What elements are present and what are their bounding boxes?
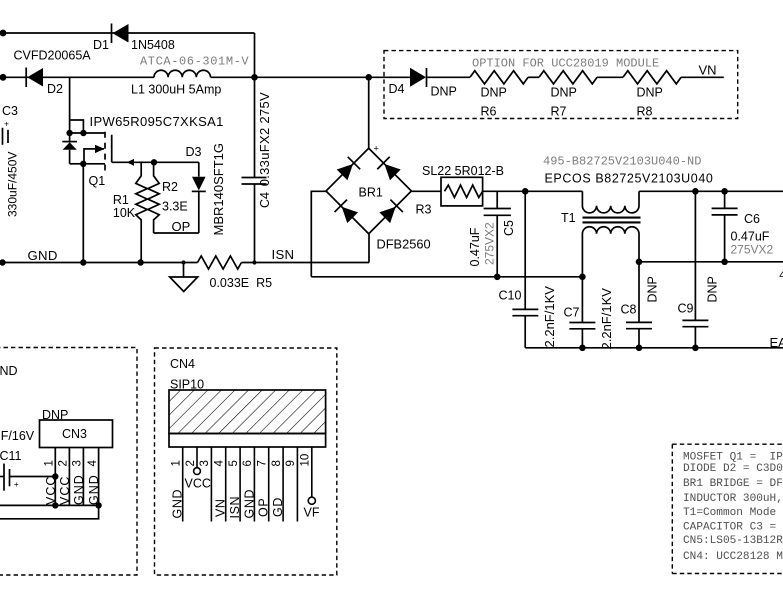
node junction BR1 top feed	[365, 74, 372, 81]
wire CN3 VCC rail	[0, 504, 99, 506]
svg-text:D4: D4	[389, 82, 405, 96]
wire main rail y=77 left segment	[2, 76, 154, 78]
wire EARTH rail	[525, 347, 783, 349]
svg-text:CN4: CN4	[170, 357, 195, 371]
resistor R2	[148, 162, 159, 233]
svg-text:VN: VN	[699, 63, 717, 78]
svg-text:7: 7	[257, 460, 269, 466]
svg-text:Q1: Q1	[89, 174, 106, 188]
dashed box CN4	[155, 348, 337, 575]
svg-text:+: +	[14, 479, 19, 489]
svg-text:C4: C4	[258, 192, 272, 208]
svg-text:L1 300uH 5Amp: L1 300uH 5Amp	[131, 83, 221, 97]
svg-text:C3: C3	[2, 104, 18, 118]
resistor R7	[539, 71, 597, 84]
wire line A from R3 to T1	[483, 190, 583, 192]
svg-text:R7: R7	[551, 105, 567, 119]
diode D2	[26, 68, 43, 88]
svg-text:VCC: VCC	[44, 476, 58, 505]
diode D4	[410, 68, 427, 87]
svg-text:8: 8	[271, 460, 283, 466]
node EARTH / C8	[636, 345, 643, 352]
node GND R1	[137, 259, 143, 265]
diode BR1 top-left	[336, 157, 360, 181]
wire gate net to D3	[112, 161, 199, 163]
pin 2 CN4	[196, 447, 198, 468]
capacitor C7	[569, 277, 595, 348]
capacitor C8	[626, 262, 652, 348]
svg-text:5: 5	[228, 460, 240, 466]
svg-text:10K: 10K	[113, 206, 136, 220]
svg-text:SIP10: SIP10	[170, 378, 204, 392]
svg-text:DFB2560: DFB2560	[377, 237, 431, 252]
wire Q1 drain drop from main rail	[69, 77, 71, 133]
diode BR1 bottom-right	[379, 200, 403, 224]
svg-text:GND: GND	[72, 474, 86, 505]
diode BR1 bottom-left	[335, 200, 359, 224]
svg-text:OP: OP	[172, 219, 191, 234]
node C4 bottom	[252, 260, 256, 264]
svg-text:+: +	[374, 144, 379, 154]
svg-text:330uF/450V: 330uF/450V	[6, 152, 20, 217]
node line A / C10 junction	[522, 188, 529, 195]
svg-text:DNP: DNP	[706, 276, 720, 302]
transformer T1 bottom winding	[582, 227, 639, 277]
svg-text:C8: C8	[621, 303, 637, 317]
arrow on gate wire	[127, 159, 135, 166]
svg-text:OP: OP	[257, 498, 271, 517]
capacitor C11	[0, 464, 55, 491]
svg-text:D1: D1	[93, 38, 109, 52]
bridge BR1 diamond	[326, 148, 411, 234]
wire BR1 right vertex to R3	[411, 190, 441, 192]
node line B / C6 bottom	[721, 259, 728, 266]
wire OP net	[154, 232, 199, 234]
svg-text:0.33uFX2 275V: 0.33uFX2 275V	[257, 92, 272, 186]
svg-text:GND: GND	[242, 489, 256, 519]
wire ISN net	[242, 262, 370, 264]
transistor Q1 channel and leads	[83, 132, 111, 171]
svg-text:DNP: DNP	[637, 86, 663, 100]
svg-text:275VX2: 275VX2	[731, 243, 774, 257]
resistor R3 box	[441, 177, 483, 206]
svg-text:T1: T1	[561, 211, 576, 225]
pin 9 CN4	[296, 447, 298, 522]
svg-text:DNP: DNP	[481, 86, 507, 100]
svg-text:R2: R2	[162, 180, 178, 194]
resistor R6	[470, 71, 528, 84]
node T1 bottom-right / C8	[636, 259, 643, 266]
wire drain jog loop	[70, 120, 84, 133]
svg-text:OPTION FOR UCC28019 MODULE: OPTION FOR UCC28019 MODULE	[472, 57, 659, 71]
wire AC rail B left y=276.8	[311, 276, 582, 278]
wire ISN to BR1 minus	[368, 234, 370, 263]
svg-text:MOSFET Q1 = IPW65R095C7XKSA1: MOSFET Q1 = IPW65R095C7XKSA1	[683, 452, 783, 464]
node EARTH / C7	[579, 345, 586, 352]
wire CN3 GND rail	[0, 505, 99, 518]
wire R6 to R7	[528, 76, 539, 78]
svg-text:INDUCTOR 300uH, 5Amp: INDUCTOR 300uH, 5Amp	[683, 493, 783, 505]
node C11 / pin1	[52, 473, 58, 479]
svg-text:C11: C11	[0, 449, 22, 463]
svg-text:CN3: CN3	[62, 427, 87, 441]
wire BR1 top stub	[368, 77, 370, 148]
node T1 bottom-left / C7	[579, 274, 586, 281]
svg-text:C10: C10	[499, 289, 522, 303]
svg-text:SL22 5R012-B: SL22 5R012-B	[422, 164, 504, 178]
svg-text:0.47uF: 0.47uF	[468, 227, 482, 266]
svg-text:2: 2	[58, 460, 70, 466]
svg-text:DIODE D2 = C3D08060A: DIODE D2 = C3D08060A	[683, 463, 783, 475]
svg-text:0.47uF: 0.47uF	[731, 230, 770, 244]
svg-text:C5: C5	[502, 220, 516, 236]
svg-text:495-B82725V2103U040-ND: 495-B82725V2103U040-ND	[543, 155, 701, 169]
node line A / C9	[692, 188, 699, 195]
node gate/R2 junction	[151, 159, 157, 165]
svg-text:EARTH: EARTH	[770, 335, 783, 350]
connector CN4 hatched body	[169, 390, 326, 447]
svg-text:2.2nF/1KV: 2.2nF/1KV	[599, 288, 614, 350]
svg-text:EPCOS B82725V2103U040: EPCOS B82725V2103U040	[545, 172, 714, 186]
svg-text:ISN: ISN	[272, 247, 295, 262]
capacitor C9	[682, 191, 708, 347]
svg-text:275VX2: 275VX2	[483, 222, 497, 265]
svg-text:CN5:LS05-13B12RS: CN5:LS05-13B12RS	[683, 535, 783, 547]
node left end main rail	[0, 74, 6, 81]
capacitor C3	[3, 128, 9, 145]
pin 3 CN3	[82, 448, 84, 506]
svg-text:MBR140SFT1G: MBR140SFT1G	[211, 143, 226, 235]
svg-text:2.2nF/1KV: 2.2nF/1KV	[542, 286, 557, 348]
svg-text:R3: R3	[416, 203, 432, 217]
node C5 bottom	[494, 274, 501, 281]
wire R7 to R8	[597, 76, 623, 78]
body diode of Q1	[62, 133, 77, 164]
svg-text:1N5408: 1N5408	[131, 38, 175, 52]
wire R8 to VN	[681, 76, 724, 78]
svg-text:DNP: DNP	[431, 85, 457, 99]
capacitor C4	[242, 77, 267, 262]
svg-text:CAPACITOR C3 = 330uF/450V: CAPACITOR C3 = 330uF/450V	[683, 522, 783, 534]
svg-text:CVFD20065A: CVFD20065A	[14, 49, 92, 63]
node EARTH / C9	[692, 345, 699, 352]
svg-text:0.033E R5: 0.033E R5	[210, 276, 273, 290]
svg-text:GND: GND	[171, 489, 185, 519]
svg-text:R1: R1	[113, 193, 129, 207]
svg-text:VN: VN	[214, 498, 228, 517]
inductor L1	[154, 70, 210, 77]
svg-text:C9: C9	[678, 302, 694, 316]
svg-text:4: 4	[87, 460, 99, 467]
pin 8 CN4	[282, 447, 284, 522]
connector CN3 body	[40, 420, 113, 448]
svg-text:CN4: UCC28128 Module: CN4: UCC28128 Module	[683, 551, 783, 563]
svg-text:F/16V: F/16V	[1, 429, 35, 443]
node pin1 VCC rail	[52, 502, 58, 508]
wire line B right of T1	[639, 261, 783, 263]
wire GND rail	[2, 262, 198, 264]
dashed box OPTION FOR UCC28019 MODULE	[384, 51, 738, 119]
node pin4 rail	[95, 502, 101, 508]
svg-text:BR1 BRIDGE = DFB2560: BR1 BRIDGE = DFB2560	[683, 478, 783, 490]
pin 1 CN3	[54, 448, 56, 506]
wire drain lead	[70, 132, 105, 134]
wire source bottom row	[70, 163, 84, 165]
node source junction	[80, 161, 86, 167]
svg-text:3: 3	[199, 460, 211, 466]
svg-text:3.3E: 3.3E	[162, 200, 188, 214]
svg-text:GND: GND	[28, 248, 58, 263]
node left end top rail	[0, 30, 6, 37]
node drain left	[66, 130, 72, 136]
svg-text:6: 6	[242, 460, 254, 466]
pin 5 CN4	[239, 447, 241, 522]
svg-text:BR1: BR1	[359, 186, 383, 200]
capacitor C10	[512, 191, 538, 347]
capacitor C6	[712, 191, 738, 261]
svg-text:ISN: ISN	[228, 496, 242, 519]
dashed box notes bottom-right	[672, 444, 783, 573]
ground symbol	[170, 260, 198, 291]
wire D4 to R6	[427, 76, 471, 78]
pin 4 CN4	[225, 447, 227, 522]
svg-text:VF: VF	[304, 506, 320, 520]
svg-text:C6: C6	[744, 212, 760, 226]
diode BR1 top-right	[377, 157, 401, 181]
svg-text:VCC: VCC	[58, 476, 72, 505]
wire line A right of T1	[639, 190, 783, 192]
pin 4 CN3	[98, 448, 100, 506]
svg-text:ATCA-06-301M-V: ATCA-06-301M-V	[140, 55, 249, 69]
wire BR1 left vertex to AC rail	[311, 191, 326, 276]
resistor R3 zigzag	[445, 185, 483, 197]
resistor R1	[136, 162, 147, 262]
svg-text:D3: D3	[186, 145, 202, 159]
wire top rail y=33	[2, 32, 255, 34]
wire drop from top rail to main rail at x=254.5	[254, 33, 256, 77]
svg-text:T1=Common Mode Choke: T1=Common Mode Choke	[683, 507, 783, 519]
svg-text:R6: R6	[481, 105, 497, 119]
transformer T1 top winding	[582, 191, 639, 213]
pin 6 CN4	[253, 447, 255, 522]
svg-text:IPW65R095C7XKSA1: IPW65R095C7XKSA1	[90, 114, 224, 129]
capacitor C5	[484, 191, 511, 276]
svg-text:2: 2	[185, 460, 197, 466]
node line A / C6	[721, 188, 728, 195]
svg-text:1: 1	[171, 460, 183, 466]
svg-text:9: 9	[285, 460, 297, 466]
pin 10 CN4	[311, 447, 313, 497]
transformer T1 core	[583, 218, 641, 223]
svg-text:R8: R8	[637, 105, 653, 119]
node junction L1/C4	[251, 74, 258, 81]
svg-text:+: +	[4, 119, 9, 129]
svg-text:VCC: VCC	[185, 477, 211, 491]
resistor R5	[198, 256, 242, 269]
svg-text:3: 3	[72, 460, 84, 466]
svg-text:DNP: DNP	[646, 276, 660, 302]
dashed box CN3	[0, 348, 137, 576]
pin 3 CN4	[210, 447, 212, 522]
svg-text:GD: GD	[271, 497, 285, 517]
svg-text:1: 1	[44, 460, 56, 466]
diode D3	[192, 162, 206, 233]
svg-text:10: 10	[300, 454, 312, 467]
svg-text:C7: C7	[564, 306, 580, 320]
pin 1 CN4	[182, 447, 184, 522]
svg-text:GND: GND	[87, 474, 101, 505]
wire main rail y=77 right segment	[211, 76, 411, 78]
pin 2 CN3	[68, 448, 70, 506]
svg-text:ND: ND	[0, 364, 18, 378]
svg-text:DNP: DNP	[551, 86, 577, 100]
svg-text:4: 4	[214, 460, 226, 467]
svg-text:D2: D2	[47, 82, 63, 96]
node left end GND rail	[0, 259, 6, 265]
wire Q1 source to GND	[82, 164, 84, 263]
svg-text:DNP: DNP	[42, 408, 68, 422]
node GND Q1 source	[80, 259, 86, 265]
diode D1	[112, 24, 129, 44]
svg-text:4: 4	[779, 270, 783, 282]
pin 7 CN4	[268, 447, 270, 522]
node drain right	[80, 130, 86, 136]
resistor R8	[623, 71, 681, 84]
